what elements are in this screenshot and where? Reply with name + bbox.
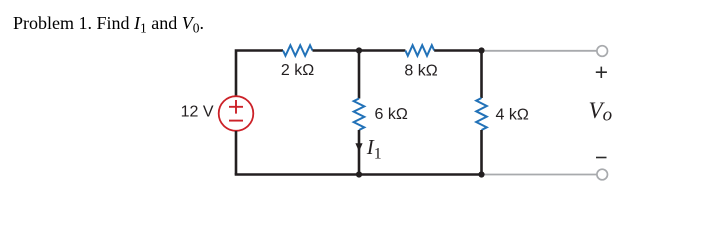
wire: middle branch top [358,51,361,99]
resistor 8 kOhm (horizontal zigzag) [405,45,434,56]
wire: right branch top [480,51,483,99]
terminal circle top [597,46,608,57]
gray wire to bottom output terminal [482,174,598,176]
terminal circle bottom [597,169,608,180]
resistor 6 kOhm (vertical zigzag) [354,99,365,131]
wire: top-right into node B [434,49,481,52]
node A junction dot [356,47,362,53]
source minus sign [229,120,243,122]
svg-text:4 kΩ: 4 kΩ [496,107,529,124]
node D junction dot [478,171,484,177]
voltage source 12 V [219,96,254,131]
svg-text:Problem 1. Find I1 and V0.: Problem 1. Find I1 and V0. [13,13,204,36]
svg-text:8 kΩ: 8 kΩ [404,63,437,80]
source plus sign [229,100,243,114]
svg-text:6 kΩ: 6 kΩ [375,106,408,123]
node C junction dot [356,171,362,177]
output minus sign [596,157,607,159]
title: Problem 1. Find I1 and V0. [13,13,204,36]
wire: bottom rail [235,173,482,176]
wire: right branch bottom [480,130,483,175]
node B junction dot [478,47,484,53]
current arrow I1 (arrowhead) [355,143,362,151]
svg-text:2 kΩ: 2 kΩ [281,62,314,79]
wire: top segment into node A [313,49,406,52]
output plus sign [596,67,607,78]
wire: middle branch bottom [358,130,361,175]
gray wire to top output terminal [482,50,598,52]
wire: top-left segment (source to node A) [236,51,283,97]
resistor 2 kOhm (horizontal zigzag) [283,45,313,56]
svg-text:12 V: 12 V [181,104,214,121]
resistor 4 kOhm (vertical zigzag) [476,98,487,130]
wire: left bottom segment [235,131,238,175]
